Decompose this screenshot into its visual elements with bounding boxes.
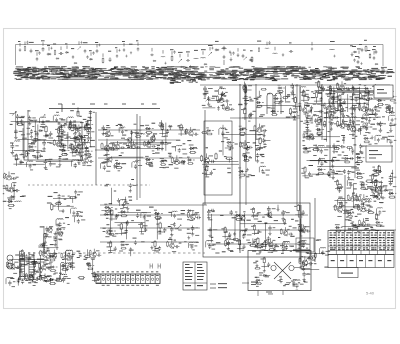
value label	[168, 239, 172, 240]
value label	[291, 219, 294, 220]
value label	[159, 123, 162, 124]
capacitor C117	[343, 100, 346, 105]
value label	[354, 188, 357, 189]
capacitor C26	[242, 54, 245, 58]
value label	[20, 117, 25, 118]
value label	[253, 242, 255, 243]
capacitor C233	[228, 232, 231, 237]
value label	[321, 105, 325, 106]
value label	[133, 185, 137, 186]
resistor R59	[278, 90, 284, 92]
wire	[392, 170, 394, 182]
value label	[227, 168, 231, 169]
capacitor C178	[210, 170, 213, 175]
wire	[13, 163, 21, 165]
wire	[341, 227, 343, 229]
value label	[353, 225, 356, 226]
value label	[372, 86, 375, 87]
capacitor C140	[307, 110, 312, 113]
value label	[324, 139, 327, 140]
value label	[78, 135, 81, 136]
capacitor C31	[44, 159, 48, 165]
smudge streaks	[118, 69, 157, 72]
resistor R71	[385, 93, 391, 95]
resistor R52	[216, 95, 218, 101]
value label	[224, 137, 228, 138]
inductor L42	[319, 157, 325, 160]
value label	[35, 50, 39, 51]
value label	[253, 142, 256, 143]
resistor R13	[53, 139, 55, 146]
value label	[72, 215, 76, 216]
value label	[187, 140, 191, 141]
ground	[332, 149, 335, 153]
resistor R79	[377, 103, 384, 105]
value label	[76, 138, 81, 139]
value label	[122, 135, 126, 136]
resistor R110	[206, 165, 208, 172]
wire	[325, 107, 327, 142]
value label	[140, 125, 144, 126]
transistor Q1	[84, 157, 89, 163]
resistor R21	[73, 140, 80, 142]
resistor R3	[102, 57, 104, 63]
wire	[22, 128, 24, 153]
transistor Q16	[107, 156, 112, 162]
capacitor C147	[332, 96, 335, 102]
value label	[119, 155, 122, 156]
resistor R86	[358, 104, 360, 111]
wire	[222, 133, 263, 135]
value label	[160, 158, 164, 159]
value label	[82, 165, 85, 166]
wire	[324, 116, 378, 118]
value label	[323, 124, 326, 125]
value label	[167, 143, 171, 144]
value label	[109, 203, 113, 204]
wire	[301, 224, 303, 231]
capacitor C13	[116, 54, 118, 58]
resistor R99	[304, 166, 306, 173]
value label	[394, 124, 398, 125]
capacitor C88	[134, 164, 137, 169]
inductor L51	[301, 239, 307, 242]
value label	[235, 212, 237, 213]
transistor Q26	[351, 126, 356, 133]
capacitor C61	[34, 155, 40, 159]
value label	[345, 210, 349, 211]
value label	[238, 104, 242, 105]
wire	[122, 163, 124, 165]
value label	[300, 236, 303, 237]
diode D55	[206, 129, 211, 131]
wire	[106, 139, 108, 167]
value label	[59, 145, 63, 146]
value label	[136, 210, 141, 211]
value label	[116, 125, 118, 126]
value label	[258, 134, 261, 135]
wire	[131, 131, 133, 149]
value label	[108, 51, 111, 52]
value label	[344, 155, 348, 156]
capacitor C103	[217, 106, 220, 111]
value label	[158, 233, 161, 234]
value label	[271, 111, 274, 112]
wire	[331, 98, 390, 100]
wire	[159, 229, 161, 234]
value label	[355, 162, 360, 163]
ground	[339, 104, 342, 108]
value label	[243, 153, 246, 154]
value label	[189, 145, 194, 146]
resistor R14	[15, 154, 17, 162]
value label	[225, 92, 228, 93]
capacitor C86	[101, 125, 104, 130]
trimmer RT8	[85, 141, 88, 144]
wire	[375, 184, 377, 187]
transistor Q20	[242, 85, 246, 91]
wire	[331, 90, 335, 92]
value label	[121, 163, 126, 164]
wire	[300, 219, 302, 237]
ground	[267, 213, 270, 217]
transistor Q30	[309, 134, 314, 140]
transistor Q17	[150, 135, 155, 142]
resistor R10	[58, 127, 60, 134]
wire	[119, 200, 121, 206]
wire	[109, 218, 116, 220]
capacitor C232	[261, 243, 264, 248]
capacitor C212	[114, 246, 117, 251]
ground	[207, 215, 210, 219]
diode D33	[104, 206, 110, 209]
ground	[164, 62, 166, 65]
resistor R70	[327, 112, 329, 118]
capacitor C39	[16, 114, 20, 120]
capacitor C156	[390, 111, 395, 114]
value label	[175, 161, 178, 162]
wire	[373, 51, 375, 55]
value label	[313, 145, 317, 146]
value label	[177, 214, 180, 215]
wire	[15, 161, 17, 166]
value label	[325, 255, 329, 256]
value label	[79, 136, 83, 137]
value label	[0, 186, 5, 187]
ground	[330, 127, 333, 131]
value label	[247, 142, 250, 143]
alignment band outline	[16, 45, 384, 67]
transistor Q10	[104, 145, 109, 152]
value label	[10, 143, 14, 144]
wire	[72, 197, 74, 203]
wire	[9, 113, 14, 115]
value label	[354, 183, 357, 184]
resistor R139	[362, 181, 364, 188]
wire	[189, 210, 194, 212]
wire	[52, 116, 54, 121]
capacitor C201	[308, 256, 310, 261]
capacitor C152	[382, 86, 385, 92]
value label	[286, 101, 290, 102]
capacitor C168	[340, 145, 345, 148]
value label	[372, 167, 375, 168]
resistor R161	[224, 227, 226, 234]
value label	[176, 140, 180, 141]
resistor R96	[356, 176, 363, 178]
value label	[157, 145, 160, 146]
wire	[274, 47, 276, 51]
wire	[16, 121, 21, 123]
value label	[364, 85, 366, 86]
dense printed block	[271, 76, 274, 79]
value label	[349, 182, 352, 183]
diode D6	[153, 60, 157, 62]
capacitor C43	[69, 120, 72, 125]
value label	[354, 144, 357, 145]
resistor R73	[318, 80, 320, 88]
capacitor C216	[130, 247, 132, 252]
capacitor C170	[319, 158, 322, 163]
value label	[187, 157, 190, 158]
diode D63	[351, 224, 356, 227]
value label	[155, 153, 160, 154]
wire	[314, 111, 321, 113]
inductor L41	[346, 123, 351, 126]
wire	[157, 231, 165, 233]
inductor L47	[348, 178, 354, 181]
value label	[230, 251, 234, 252]
printed value rows (blurred)	[165, 70, 168, 73]
capacitor C158	[320, 149, 323, 154]
transistor Q28	[306, 135, 310, 141]
capacitor C153	[349, 119, 352, 124]
value label	[306, 127, 309, 128]
value label	[324, 149, 328, 150]
value label	[293, 112, 296, 113]
value label	[382, 137, 387, 138]
capacitor C185	[389, 175, 393, 181]
resistor R163	[239, 239, 241, 246]
wire	[329, 101, 331, 105]
value label	[152, 123, 156, 124]
value label	[66, 137, 70, 138]
capacitor C200	[308, 262, 313, 265]
value label	[366, 196, 368, 197]
transistor Q48	[283, 230, 288, 236]
wire	[71, 150, 73, 154]
capacitor C235	[242, 244, 245, 249]
value label	[45, 159, 49, 160]
value label	[293, 119, 296, 120]
value label	[306, 118, 309, 119]
value label	[359, 225, 362, 226]
value label	[78, 191, 83, 192]
wire	[133, 141, 135, 144]
trimmer RT16	[347, 212, 350, 215]
transistor Q14	[105, 130, 110, 136]
value label	[267, 107, 271, 108]
wire	[35, 146, 37, 148]
wire	[363, 218, 365, 221]
resistor R136	[373, 192, 375, 198]
trimmer RT18	[177, 225, 181, 229]
value label	[40, 156, 43, 157]
wire	[338, 188, 340, 193]
diode D46	[302, 147, 307, 150]
value label	[109, 214, 112, 215]
value label	[49, 159, 53, 160]
value label	[391, 91, 394, 92]
value label	[212, 96, 217, 97]
value label	[64, 153, 66, 154]
value label	[121, 241, 125, 242]
value label	[316, 124, 320, 125]
inductor L17	[75, 215, 81, 218]
value label	[120, 128, 124, 129]
wire	[362, 115, 364, 120]
wire	[57, 204, 59, 211]
wire	[320, 166, 357, 168]
ground	[268, 231, 271, 235]
value label	[62, 196, 65, 197]
value label	[60, 125, 65, 126]
resistor R37	[180, 124, 182, 132]
inductor L37	[389, 114, 394, 117]
dense printed block	[348, 72, 350, 75]
capacitor C187	[355, 198, 360, 201]
resistor R150	[110, 241, 112, 248]
value label	[63, 223, 65, 224]
value label	[313, 155, 316, 156]
value label	[306, 244, 310, 245]
trimmer RT12	[257, 95, 261, 99]
inductor L13	[40, 116, 46, 119]
value label	[365, 218, 369, 219]
tuner block outline	[24, 122, 82, 160]
resistor R26	[85, 124, 87, 131]
value label	[374, 143, 377, 144]
diode D49	[317, 168, 322, 171]
wire	[132, 132, 136, 134]
wire	[239, 84, 241, 253]
ground	[333, 55, 335, 58]
value label	[370, 189, 373, 190]
wire	[96, 44, 98, 48]
value label	[340, 111, 344, 112]
value label	[393, 103, 398, 104]
wire	[39, 118, 41, 123]
wire	[84, 125, 86, 129]
resistor R134	[375, 179, 377, 187]
diode D58	[372, 169, 378, 172]
value label	[211, 237, 213, 238]
value label	[71, 127, 75, 128]
diode D39	[385, 89, 390, 92]
value label	[387, 106, 391, 107]
wire	[67, 132, 69, 149]
value label	[179, 243, 182, 244]
wire	[285, 86, 287, 103]
wire	[362, 203, 364, 207]
ground	[211, 47, 213, 50]
value label	[352, 172, 355, 173]
value label	[190, 220, 194, 221]
transistor Q31	[364, 124, 368, 130]
transistor Q15	[127, 137, 131, 143]
capacitor C50	[10, 143, 14, 149]
value label	[46, 120, 50, 121]
value label	[227, 244, 229, 245]
resistor R140	[353, 206, 360, 208]
ground	[62, 209, 65, 213]
value label	[331, 120, 333, 121]
value label	[168, 226, 171, 227]
value label	[78, 164, 80, 165]
wire	[125, 197, 127, 202]
sub block	[296, 238, 314, 252]
value label	[332, 112, 337, 113]
value label	[367, 95, 371, 96]
value label	[313, 93, 315, 94]
capacitor C195	[381, 196, 386, 199]
wire	[34, 121, 36, 143]
inductor L33	[313, 114, 319, 117]
capacitor C171	[351, 148, 354, 154]
wire	[334, 200, 350, 202]
wire	[171, 51, 173, 55]
diode D62	[375, 221, 380, 223]
value label	[370, 227, 373, 228]
value label	[78, 153, 81, 154]
capacitor C116	[355, 97, 358, 102]
value label	[381, 177, 383, 178]
value label	[84, 148, 87, 149]
wire	[233, 141, 235, 143]
value label	[318, 90, 321, 91]
wire	[204, 174, 211, 176]
value label	[355, 227, 358, 228]
wire	[311, 42, 313, 46]
value label	[306, 90, 310, 91]
capacitor C29	[357, 60, 360, 64]
value label	[342, 205, 345, 206]
value label	[20, 196, 24, 197]
value label	[212, 245, 214, 246]
value label	[337, 216, 341, 217]
value label	[334, 123, 337, 124]
ground	[11, 150, 15, 155]
inductor L11	[54, 114, 59, 117]
ground	[191, 232, 194, 236]
value label	[174, 240, 176, 241]
value label	[77, 139, 81, 140]
wire	[230, 52, 232, 56]
wire	[123, 222, 128, 224]
capacitor C211	[170, 226, 173, 231]
diode D24	[145, 127, 151, 130]
wire	[379, 169, 381, 171]
value label	[338, 184, 342, 185]
resistor R98	[344, 161, 350, 163]
wire	[296, 84, 298, 205]
value label	[259, 148, 263, 149]
value label	[164, 136, 168, 137]
value label	[258, 232, 261, 233]
trimmer RT9	[3, 174, 6, 177]
wire	[43, 135, 51, 137]
value label	[330, 169, 332, 170]
